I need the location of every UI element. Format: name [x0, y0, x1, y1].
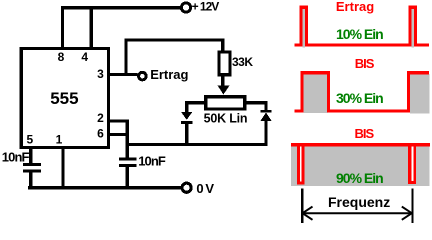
dimension tick left — [301, 188, 303, 223]
svg-text:555: 555 — [50, 89, 78, 108]
svg-text:Frequenz: Frequenz — [328, 194, 390, 210]
wire pin 5 — [29, 149, 32, 163]
svg-text:+ 12V: + 12V — [192, 0, 220, 14]
terminal +12V — [181, 3, 190, 12]
wire feedback vertical — [124, 39, 127, 77]
dimension tick right — [411, 188, 413, 223]
wire pot right lead — [246, 101, 267, 110]
wire junction 2-6 vertical — [126, 119, 129, 157]
svg-text:6: 6 — [97, 127, 104, 141]
svg-text:1: 1 — [56, 133, 63, 147]
wire pin 3 — [109, 73, 138, 76]
wire pin 6 — [109, 133, 129, 136]
terminal Ertrag — [139, 72, 147, 80]
svg-text:10% Ein: 10% Ein — [336, 26, 383, 42]
svg-text:33K: 33K — [232, 55, 253, 69]
svg-text:50K Lin: 50K Lin — [204, 112, 248, 126]
svg-text:BIS: BIS — [355, 126, 375, 141]
wire pin 2 — [109, 119, 129, 122]
resistor R1 33K — [219, 52, 230, 75]
wire pot left lead — [185, 101, 206, 112]
wire pin 8 to rail — [61, 6, 64, 50]
wire wiper arrow — [218, 76, 230, 94]
waveform 2 trace — [295, 71, 430, 113]
wire pin 1 — [61, 149, 64, 186]
svg-text:30% Ein: 30% Ein — [336, 90, 383, 106]
svg-text:2: 2 — [97, 111, 104, 125]
potentiometer VR1 50K — [206, 97, 245, 109]
capacitor C2 10nF — [119, 158, 137, 167]
dimension arrow line — [303, 207, 412, 220]
wire D1 to bus — [185, 124, 188, 144]
wire C2 to rail — [126, 167, 129, 186]
diode D1 — [181, 112, 192, 124]
waveform 1 trace — [295, 6, 429, 48]
wire threshold bus — [126, 143, 268, 146]
svg-text:Ertrag: Ertrag — [150, 67, 188, 82]
wire resistor top stub — [221, 39, 224, 52]
svg-text:3: 3 — [97, 67, 104, 81]
svg-text:BIS: BIS — [355, 56, 375, 71]
diode D2 — [260, 110, 271, 121]
waveform 3 trace — [291, 143, 430, 186]
svg-text:8: 8 — [58, 50, 65, 64]
svg-text:0 V: 0 V — [196, 181, 214, 196]
svg-text:4: 4 — [81, 50, 88, 64]
wire 0V rail — [28, 186, 181, 189]
svg-text:Ertrag: Ertrag — [336, 0, 374, 14]
wire feedback top — [124, 39, 224, 42]
svg-text:10nF: 10nF — [2, 149, 30, 164]
capacitor C1 10nF — [23, 163, 41, 172]
svg-text:5: 5 — [26, 133, 33, 147]
wire D2 to bus — [264, 121, 267, 143]
wire pin 4 to rail — [90, 6, 93, 50]
wire +12V rail — [61, 6, 181, 9]
svg-text:90% Ein: 90% Ein — [336, 170, 383, 186]
svg-text:10nF: 10nF — [138, 153, 166, 168]
IC U1 555 body — [21, 49, 108, 148]
wire C1 to rail — [29, 173, 32, 187]
terminal 0V — [182, 183, 191, 192]
